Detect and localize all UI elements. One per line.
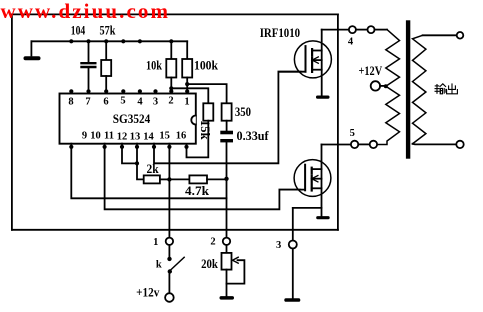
terminal 1 (166, 238, 173, 245)
wire terminal3 to ground (292, 249, 294, 299)
terminal 2 (223, 238, 230, 245)
terminal 5b (370, 141, 377, 148)
svg-text:+12v: +12v (136, 285, 160, 299)
wire pot to ground (226, 270, 228, 297)
transistor Q2 IRF1010 lower (279, 145, 331, 217)
wire pin1 to 350 (187, 84, 226, 103)
svg-text:5: 5 (350, 128, 355, 139)
resistor R5 350 (222, 103, 232, 120)
wire outer box bottom edge (12, 229, 338, 231)
svg-text:12: 12 (117, 132, 128, 143)
terminal 5a (351, 141, 358, 148)
wire pin12 to pin13 (122, 144, 137, 164)
svg-text:www.dziuu.com: www.dziuu.com (1, 0, 169, 23)
op-amp U1 SG3524 body (60, 94, 196, 144)
wire pin15 to terminal 1 (168, 144, 170, 238)
potentiometer RP 20k (222, 253, 245, 284)
wire terminal3 riser (292, 208, 294, 241)
svg-text:20k: 20k (201, 257, 218, 271)
terminal 4b (368, 26, 375, 33)
transistor Q1 IRF1010 upper (278, 30, 331, 96)
svg-text:2k: 2k (147, 162, 159, 176)
resistor R3 100k (182, 41, 192, 93)
switch K (167, 257, 184, 274)
svg-text:100k: 100k (194, 58, 218, 72)
ground G2 pot (220, 296, 235, 300)
svg-text:350: 350 (235, 105, 251, 119)
wire 4b to primary top (375, 29, 388, 31)
svg-text:7: 7 (85, 96, 90, 107)
svg-text:8: 8 (68, 96, 73, 107)
label 输出 output drawn glyphs (435, 83, 458, 93)
transformer T1 primary winding (377, 30, 399, 145)
wire 15k to pin16 (187, 121, 209, 158)
wire center tap (380, 85, 386, 87)
wire terminal2 to pot (226, 245, 228, 253)
ground G3 (284, 298, 300, 302)
label pin numbers top row (68, 95, 189, 107)
node dot 4.7k right junction (224, 177, 228, 181)
node dots IC bottom pins (69, 145, 188, 149)
terminal 3 (289, 241, 297, 249)
svg-text:+12V: +12V (359, 64, 383, 78)
wire source junction to terminal3 riser (293, 207, 322, 209)
ground G1 (24, 41, 41, 60)
wire drain to terminal 5 (322, 144, 351, 146)
capacitor C2 0.33uf (220, 131, 233, 143)
svg-text:16: 16 (176, 131, 187, 142)
resistor R6 2k (144, 175, 160, 183)
svg-text:3: 3 (276, 240, 281, 251)
wire secondary top lead (423, 34, 457, 36)
wire pin11 line to lower gate (105, 144, 301, 210)
resistor R7 4.7k (169, 175, 226, 183)
wire pin14 line to upper gate (154, 72, 301, 164)
svg-text:57k: 57k (100, 23, 116, 37)
node center tap dot (384, 84, 388, 88)
wire ground rail (31, 40, 187, 42)
label pin numbers bottom row (82, 131, 186, 143)
capacitor C1 104 (82, 41, 96, 93)
node dots IC top pins (69, 82, 189, 93)
svg-text:0.33uf: 0.33uf (237, 129, 270, 143)
terminal secondary bottom (456, 141, 463, 148)
wire switch to +12v (168, 274, 170, 294)
svg-text:15: 15 (159, 131, 170, 142)
wire pin9 line (71, 144, 226, 199)
resistor R1 57k (101, 41, 111, 93)
node dot 2k-4.7k-pin15 junction (167, 177, 171, 181)
svg-text:13: 13 (130, 132, 141, 143)
svg-text:9: 9 (82, 131, 87, 142)
svg-text:SG3524: SG3524 (113, 111, 151, 126)
svg-text:6: 6 (103, 96, 108, 107)
terminal +12V center tap (371, 81, 380, 90)
resistor R2 10k (166, 41, 176, 93)
wire 2k right (160, 178, 170, 180)
terminal secondary top (457, 32, 464, 39)
svg-text:1: 1 (153, 237, 158, 248)
svg-text:5: 5 (120, 95, 125, 106)
transformer T1 secondary winding (413, 35, 426, 144)
node dot pin12-13 junction (135, 161, 139, 165)
svg-text:IRF1010: IRF1010 (260, 26, 300, 40)
wire between 4a 4b (356, 29, 368, 31)
svg-text:4: 4 (137, 96, 143, 107)
svg-text:15k: 15k (198, 120, 212, 140)
wire between 5a 5b (358, 143, 369, 145)
svg-text:14: 14 (143, 132, 154, 143)
wire secondary bottom lead (413, 143, 457, 146)
svg-text:3: 3 (153, 96, 158, 107)
terminal +12v (165, 293, 174, 302)
wire pin13 down (137, 144, 144, 180)
node dots on ground rail (69, 39, 173, 43)
ground G5 lower mosfet (316, 216, 330, 219)
svg-text:k: k (156, 260, 162, 271)
ground G4 upper mosfet (316, 96, 330, 99)
svg-text:2: 2 (168, 95, 173, 106)
transformer T1 core (406, 20, 410, 158)
svg-text:11: 11 (104, 131, 114, 142)
svg-text:10: 10 (90, 131, 101, 142)
wire drain to terminal 4 (322, 29, 349, 31)
wire outer box left edge (11, 14, 13, 229)
terminal 4a (349, 26, 356, 33)
wire 350 to C2 (226, 121, 228, 131)
wire terminal1 to switch (168, 245, 170, 257)
svg-text:1: 1 (184, 96, 189, 107)
resistor R4 15k (203, 103, 213, 120)
svg-text:4.7k: 4.7k (185, 184, 209, 198)
svg-text:10k: 10k (146, 58, 162, 72)
svg-text:4: 4 (348, 37, 354, 48)
svg-text:2: 2 (210, 237, 215, 248)
wire pin2 to 15k (171, 88, 208, 103)
wire outer box right edge (337, 14, 339, 229)
wire outer box top edge (12, 13, 338, 15)
wire C2 to terminal 2 (226, 142, 228, 237)
svg-text:104: 104 (71, 23, 86, 37)
